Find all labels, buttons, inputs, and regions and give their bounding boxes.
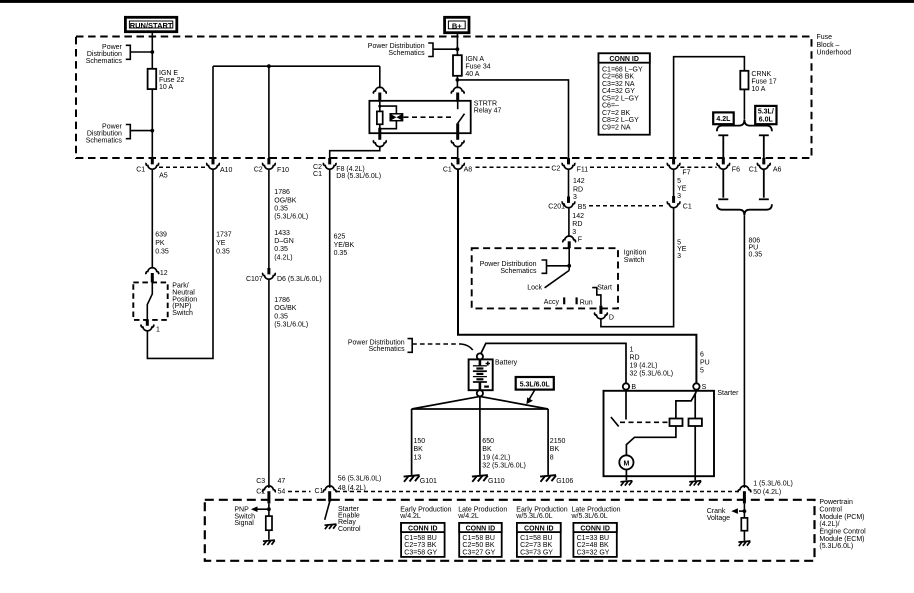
connector D ignition output	[595, 306, 614, 322]
svg-text:1: 1	[156, 327, 160, 334]
ground starter solenoid	[689, 481, 701, 486]
svg-text:Distribution: Distribution	[87, 51, 122, 58]
connector C2 F10	[254, 158, 289, 174]
svg-text:56 (5.3L/6.0L): 56 (5.3L/6.0L)	[338, 476, 382, 483]
connector C107 D6	[246, 268, 322, 283]
svg-text:F7: F7	[682, 169, 690, 176]
svg-text:(5.3L/6.0L): (5.3L/6.0L)	[274, 214, 308, 221]
svg-text:CONN ID: CONN ID	[580, 526, 610, 533]
svg-text:C1: C1	[136, 166, 145, 173]
svg-text:2150: 2150	[550, 438, 566, 445]
wire F11 to C201	[568, 170, 570, 197]
fuse IGN E 22	[148, 69, 157, 89]
svg-text:0.35: 0.35	[274, 313, 288, 320]
fuse block bus bar A6	[759, 135, 769, 158]
wire F6 lower stub	[718, 170, 728, 199]
relay coil	[377, 111, 383, 124]
svg-text:Fuse: Fuse	[817, 34, 833, 41]
svg-text:D6 (5.3L/6.0L): D6 (5.3L/6.0L)	[277, 276, 322, 283]
svg-text:(5.3L/6.0L): (5.3L/6.0L)	[819, 543, 853, 550]
svg-text:RUN/START: RUN/START	[130, 21, 173, 30]
callout Power Distribution Schematics (B+)	[368, 43, 458, 57]
connector C2 F11	[551, 158, 588, 173]
resistor PNP pullup	[266, 516, 272, 530]
starter enable relay control driver	[325, 502, 362, 533]
svg-text:G106: G106	[556, 478, 573, 485]
svg-text:PK: PK	[155, 240, 165, 247]
callout Power Distribution Schematics (battery)	[348, 339, 473, 354]
svg-text:YE: YE	[216, 240, 226, 247]
connector F7	[667, 158, 690, 176]
connector pin 12 PNP	[146, 268, 168, 283]
svg-text:IGN E: IGN E	[159, 70, 178, 77]
wire F10 to C107	[268, 170, 270, 268]
svg-text:3: 3	[573, 194, 577, 201]
svg-text:w/5.3L/6.0L: w/5.3L/6.0L	[515, 513, 552, 520]
svg-text:C3=32 GY: C3=32 GY	[577, 549, 610, 556]
svg-text:50 (4.2L): 50 (4.2L)	[753, 489, 781, 496]
junction dot	[456, 47, 460, 51]
wire 639 PK to PNP pin 12	[151, 170, 153, 268]
svg-text:Power Distribution: Power Distribution	[368, 43, 425, 50]
wire winding2 to ground	[694, 426, 696, 480]
svg-text:D8 (5.3L/6.0L): D8 (5.3L/6.0L)	[336, 173, 381, 180]
svg-text:19 (4.2L): 19 (4.2L)	[482, 454, 510, 461]
dashed connector row C201-C1	[589, 205, 666, 207]
production table 1	[399, 506, 451, 557]
svg-text:40 A: 40 A	[465, 71, 479, 78]
svg-text:Schematics: Schematics	[500, 268, 537, 275]
svg-text:CONN ID: CONN ID	[524, 526, 554, 533]
connector F6	[717, 158, 740, 174]
wire A10 up inside fuse block	[212, 66, 214, 158]
svg-text:150: 150	[414, 438, 426, 445]
option box 5.3L/6.0L (battery cable)	[516, 377, 554, 404]
dashed connector row A5-A10	[159, 166, 207, 168]
svg-text:C2=68 BK: C2=68 BK	[602, 74, 634, 81]
svg-text:Fuse 22: Fuse 22	[159, 77, 184, 84]
svg-text:0.35: 0.35	[155, 249, 169, 256]
svg-text:1433: 1433	[274, 230, 290, 237]
connector relay pin 87 bottom	[451, 140, 464, 146]
dashed PCM connector row	[288, 491, 311, 493]
svg-text:0.35: 0.35	[274, 246, 288, 253]
wire A6 lower stub	[759, 170, 769, 199]
svg-text:Ignition: Ignition	[624, 250, 647, 257]
ground G106	[540, 475, 556, 482]
connector C1 (crank feed)	[667, 196, 692, 211]
svg-text:OG/BK: OG/BK	[274, 197, 297, 204]
svg-text:10 A: 10 A	[159, 84, 173, 91]
svg-text:Starter: Starter	[717, 390, 739, 397]
svg-text:IGN A: IGN A	[465, 56, 484, 63]
starter contact arm	[611, 417, 619, 427]
dashed connector row A8-F11	[476, 166, 551, 168]
battery	[469, 359, 518, 390]
wire IGN E fuse to connector A5	[151, 89, 153, 158]
svg-text:Crank: Crank	[707, 508, 726, 515]
wire C1 to F7	[673, 170, 675, 196]
wire CRNK fuse to option brace	[743, 89, 745, 119]
svg-text:625: 625	[334, 234, 346, 241]
relay coil leads	[379, 102, 381, 112]
svg-text:Accy: Accy	[544, 299, 560, 306]
svg-text:Schematics: Schematics	[86, 58, 123, 65]
page header bar	[0, 0, 914, 3]
production table 4	[571, 506, 621, 557]
svg-text:w/4.2L: w/4.2L	[399, 513, 421, 520]
starter S lead to windings	[676, 390, 697, 419]
svg-text:BK: BK	[482, 446, 492, 453]
node battery negative terminal	[477, 390, 483, 396]
connector C3 C1 47 54	[256, 478, 285, 504]
starter winding1 to motor	[626, 426, 676, 455]
PNP switch signal input	[234, 503, 270, 527]
connector F ignition switch	[563, 236, 582, 248]
svg-text:3: 3	[677, 193, 681, 200]
svg-text:(4.2L): (4.2L)	[274, 254, 292, 261]
option brace bottom	[717, 204, 772, 215]
svg-text:C1: C1	[313, 171, 322, 178]
svg-text:w/4.2L: w/4.2L	[457, 513, 479, 520]
svg-text:RD: RD	[572, 221, 582, 228]
svg-text:Battery: Battery	[495, 360, 518, 367]
svg-text:D: D	[609, 315, 614, 322]
svg-text:BK: BK	[550, 446, 560, 453]
svg-text:A5: A5	[159, 173, 168, 180]
svg-text:A8: A8	[464, 166, 473, 173]
svg-text:F11: F11	[577, 166, 589, 173]
option brace top	[717, 120, 772, 131]
svg-text:Fuse 17: Fuse 17	[751, 79, 776, 86]
svg-text:8: 8	[550, 454, 554, 461]
svg-text:0.35: 0.35	[216, 249, 230, 256]
svg-text:F6: F6	[732, 167, 740, 174]
starter box	[604, 391, 715, 476]
svg-text:54: 54	[278, 488, 286, 495]
svg-text:BK: BK	[414, 446, 424, 453]
svg-text:Power: Power	[102, 44, 123, 51]
svg-text:C1=68 L–GY: C1=68 L–GY	[602, 67, 643, 74]
svg-text:C1=58 BU: C1=58 BU	[462, 535, 495, 542]
dashed connector row F7-F6	[680, 166, 716, 168]
relay X-box element	[390, 114, 402, 121]
svg-text:M: M	[623, 460, 629, 467]
svg-text:Distribution: Distribution	[87, 130, 122, 137]
starter motor M	[619, 455, 633, 469]
svg-text:CONN ID: CONN ID	[466, 526, 496, 533]
svg-text:Switch: Switch	[172, 310, 193, 317]
svg-text:CRNK: CRNK	[751, 71, 771, 78]
resistor crank voltage	[741, 518, 747, 531]
svg-text:C3=27 GY: C3=27 GY	[462, 549, 495, 556]
callout Power Distribution Schematics (lower left)	[86, 123, 153, 144]
svg-text:C1: C1	[256, 488, 265, 495]
svg-text:YE/BK: YE/BK	[334, 242, 355, 249]
wire PNP pin1 to A10	[147, 170, 213, 358]
starter solenoid winding 2	[689, 419, 702, 427]
connector C1 56 48	[315, 476, 382, 502]
svg-text:Module (ECM): Module (ECM)	[819, 536, 864, 543]
svg-text:B+: B+	[452, 21, 462, 30]
svg-text:C107: C107	[246, 276, 263, 283]
CONN ID table fuse block	[599, 53, 650, 134]
svg-text:A10: A10	[220, 167, 233, 174]
svg-text:PU: PU	[700, 359, 710, 366]
starter solenoid dashed link	[620, 421, 669, 423]
ignition switch dashed box	[472, 248, 618, 308]
svg-text:Schematics: Schematics	[86, 137, 123, 144]
wire D to crank fuse feed	[601, 208, 674, 326]
wire B+ to IGN A fuse	[456, 33, 458, 56]
starter solenoid winding 1	[670, 419, 683, 427]
callout Power Distribution Schematics (ignition)	[480, 260, 570, 275]
svg-text:C3=58 GY: C3=58 GY	[404, 549, 437, 556]
PCM dashed box	[205, 500, 815, 561]
production table 2	[457, 506, 507, 557]
svg-text:C3=32 NA: C3=32 NA	[602, 81, 635, 88]
PNP switch dashed box	[133, 282, 167, 320]
wire coil top feed	[379, 66, 381, 88]
svg-text:Start: Start	[597, 285, 612, 292]
svg-text:Fuse 34: Fuse 34	[465, 64, 490, 71]
svg-text:48 (4.2L): 48 (4.2L)	[338, 485, 366, 492]
svg-text:0.35: 0.35	[274, 206, 288, 213]
junction dot F10 tap	[267, 64, 271, 68]
svg-text:6.0L: 6.0L	[759, 116, 774, 123]
svg-text:5: 5	[677, 178, 681, 185]
ignition switch wiper	[568, 248, 570, 270]
svg-text:3: 3	[572, 229, 576, 236]
svg-text:5.3L/6.0L: 5.3L/6.0L	[520, 381, 551, 388]
option box 5.3L/6.0L	[755, 106, 776, 124]
svg-text:5.3L/: 5.3L/	[758, 109, 774, 116]
svg-text:C1: C1	[443, 166, 452, 173]
connector C2 C1 F8 D8	[313, 158, 381, 180]
svg-text:Power: Power	[102, 123, 123, 130]
svg-text:Run: Run	[580, 299, 593, 306]
svg-text:12: 12	[160, 270, 168, 277]
svg-text:C1=58 BU: C1=58 BU	[520, 535, 553, 542]
svg-text:C7=2 BK: C7=2 BK	[602, 110, 631, 117]
label PCM/ECM	[819, 499, 866, 550]
svg-text:Powertrain: Powertrain	[819, 499, 853, 506]
svg-text:Module (PCM): Module (PCM)	[819, 514, 864, 521]
svg-text:1737: 1737	[216, 232, 232, 239]
svg-text:Relay 47: Relay 47	[474, 108, 502, 115]
svg-text:Lock: Lock	[527, 285, 542, 292]
node B+	[445, 17, 469, 32]
wire resistor to ground	[743, 531, 745, 541]
svg-text:142: 142	[572, 213, 584, 220]
svg-text:Control: Control	[819, 506, 842, 513]
svg-text:C1: C1	[315, 488, 324, 495]
svg-text:Switch: Switch	[624, 257, 645, 264]
ground crank voltage	[738, 541, 750, 546]
wire relay coil to F8	[330, 147, 380, 158]
wire 150 BK to G101	[411, 409, 413, 475]
wire 806 PU to PCM	[743, 215, 745, 488]
crank voltage input	[707, 503, 747, 522]
svg-text:w/5.3L/6.0L: w/5.3L/6.0L	[571, 513, 608, 520]
label Fuse Block Underhood	[817, 34, 852, 56]
wire branch to F11	[457, 80, 568, 158]
wire horizontal net to relay coil	[213, 65, 380, 67]
svg-text:C5=2 L–GY: C5=2 L–GY	[602, 96, 639, 103]
svg-text:Schematics: Schematics	[388, 50, 425, 57]
wire A8 to starter S	[458, 170, 696, 383]
connector pin 1 PNP	[141, 320, 160, 334]
svg-text:C2=48 BK: C2=48 BK	[577, 542, 609, 549]
connector C1 A6	[749, 158, 782, 174]
svg-text:C2=50 BK: C2=50 BK	[462, 542, 494, 549]
svg-text:C8=2 L–GY: C8=2 L–GY	[602, 117, 639, 124]
svg-text:Signal: Signal	[234, 520, 254, 527]
svg-text:C3=73 GY: C3=73 GY	[520, 549, 553, 556]
svg-text:0.35: 0.35	[749, 251, 763, 258]
svg-text:F: F	[578, 237, 582, 244]
junction dot F11 branch	[456, 78, 460, 82]
svg-text:1786: 1786	[274, 297, 290, 304]
dashed connector row F11-F7	[590, 166, 667, 168]
svg-text:A6: A6	[773, 167, 782, 174]
wire F7 up to CRNK fuse	[674, 57, 745, 158]
svg-text:Schematics: Schematics	[369, 346, 406, 353]
svg-text:C1: C1	[683, 204, 692, 211]
node S starter terminal	[693, 383, 699, 389]
connector relay coil bottom	[373, 140, 386, 146]
svg-text:32 (5.3L/6.0L): 32 (5.3L/6.0L)	[630, 371, 674, 378]
junction dot	[150, 129, 154, 133]
svg-text:C2: C2	[254, 166, 263, 173]
svg-text:1 (5.3L/6.0L): 1 (5.3L/6.0L)	[753, 481, 793, 488]
junction dot	[150, 50, 154, 54]
svg-text:C2: C2	[551, 165, 560, 172]
ground G101	[404, 475, 420, 482]
connector C1 A8	[443, 158, 472, 173]
relay switch output lead	[456, 123, 459, 140]
svg-text:142: 142	[573, 178, 585, 185]
svg-text:Control: Control	[338, 526, 361, 533]
svg-text:C6=–: C6=–	[602, 103, 619, 110]
option box 4.2L	[713, 112, 734, 124]
svg-text:RD: RD	[573, 186, 583, 193]
svg-text:4.2L: 4.2L	[716, 116, 731, 123]
svg-text:YE: YE	[677, 186, 687, 193]
connector relay pin 30 top	[451, 87, 464, 102]
svg-text:1: 1	[630, 347, 634, 354]
relay coil low lead	[378, 129, 381, 140]
svg-text:639: 639	[155, 232, 167, 239]
node battery positive terminal	[477, 353, 483, 359]
battery ground fan	[412, 396, 548, 409]
svg-text:13: 13	[414, 454, 422, 461]
connector C201 B5	[548, 196, 586, 211]
fuse CRNK 17	[740, 71, 748, 90]
wire battery positive feed to starter B	[481, 343, 626, 383]
svg-text:B5: B5	[578, 204, 587, 211]
svg-text:(4.2L)/: (4.2L)/	[819, 521, 839, 528]
relay mechanical dashed link	[404, 116, 453, 118]
svg-text:C2=73 BK: C2=73 BK	[520, 542, 552, 549]
svg-text:Underhood: Underhood	[817, 49, 852, 56]
connector A10	[207, 158, 233, 174]
connector relay coil top	[373, 87, 386, 102]
relay switch contact	[457, 102, 459, 109]
svg-text:CONN ID: CONN ID	[609, 56, 639, 63]
relay STRTR Relay 47 box	[369, 101, 470, 133]
starter B lead	[625, 390, 627, 420]
svg-text:C2=73 BK: C2=73 BK	[404, 542, 436, 549]
ground PNP signal	[263, 540, 275, 545]
svg-text:Block –: Block –	[817, 42, 840, 49]
fuse block underhood dashed box	[76, 37, 812, 159]
wire F10 drop	[268, 66, 270, 158]
svg-text:C201: C201	[548, 204, 565, 211]
svg-text:C1: C1	[749, 167, 758, 174]
wire 625 YE/BK to PCM	[329, 170, 331, 488]
svg-text:STRTR: STRTR	[474, 100, 497, 107]
svg-text:10 A: 10 A	[751, 86, 765, 93]
wire RUN/START to IGN E fuse	[151, 32, 153, 69]
relay suppression element branch	[380, 106, 397, 114]
connector 1 50 crank voltage	[738, 481, 793, 504]
fuse IGN A 34	[453, 55, 462, 76]
ground starter motor	[620, 481, 632, 486]
svg-text:CONN ID: CONN ID	[408, 526, 438, 533]
svg-text:RD: RD	[630, 355, 640, 362]
svg-text:5: 5	[700, 367, 704, 374]
svg-text:C1=33 BU: C1=33 BU	[577, 535, 610, 542]
wire D6 to PCM connector	[268, 280, 270, 488]
svg-text:G110: G110	[488, 478, 505, 485]
ground G110	[472, 475, 488, 482]
svg-text:OG/BK: OG/BK	[274, 305, 297, 312]
svg-text:1786: 1786	[274, 189, 290, 196]
wire relay output to A8	[457, 147, 459, 158]
svg-text:C9=2 NA: C9=2 NA	[602, 124, 631, 131]
svg-text:G101: G101	[420, 478, 437, 485]
svg-text:3: 3	[677, 253, 681, 260]
production table 3	[515, 506, 567, 557]
svg-text:650: 650	[482, 438, 494, 445]
wire IGN A fuse to relay	[456, 76, 458, 88]
wire motor to ground	[625, 470, 627, 481]
svg-text:0.35: 0.35	[334, 250, 348, 257]
callout Power Distribution Schematics (top left)	[86, 44, 153, 65]
wire B5 to ignition switch F	[568, 208, 570, 236]
svg-text:C4=32 GY: C4=32 GY	[602, 88, 635, 95]
wire resistor to ground	[268, 530, 270, 540]
node RUN/START	[125, 17, 176, 31]
svg-text:32 (5.3L/6.0L): 32 (5.3L/6.0L)	[482, 463, 526, 470]
connector C1 A5	[136, 158, 168, 180]
PNP switch contact	[147, 282, 152, 320]
svg-text:C1=58 BU: C1=58 BU	[404, 535, 437, 542]
svg-text:C3: C3	[256, 478, 265, 485]
fuse block bus bar F6	[718, 135, 728, 158]
wire 650 BK to G110	[479, 409, 481, 475]
svg-text:19 (4.2L): 19 (4.2L)	[630, 363, 658, 370]
node B starter terminal	[623, 383, 629, 389]
svg-text:Engine Control: Engine Control	[819, 529, 866, 536]
svg-text:Voltage: Voltage	[707, 515, 730, 522]
wire 2150 BK to G106	[547, 409, 549, 475]
svg-text:C2: C2	[313, 164, 322, 171]
svg-text:(5.3L/6.0L): (5.3L/6.0L)	[274, 322, 308, 329]
svg-text:47: 47	[278, 478, 286, 485]
svg-text:D–GN: D–GN	[274, 238, 293, 245]
